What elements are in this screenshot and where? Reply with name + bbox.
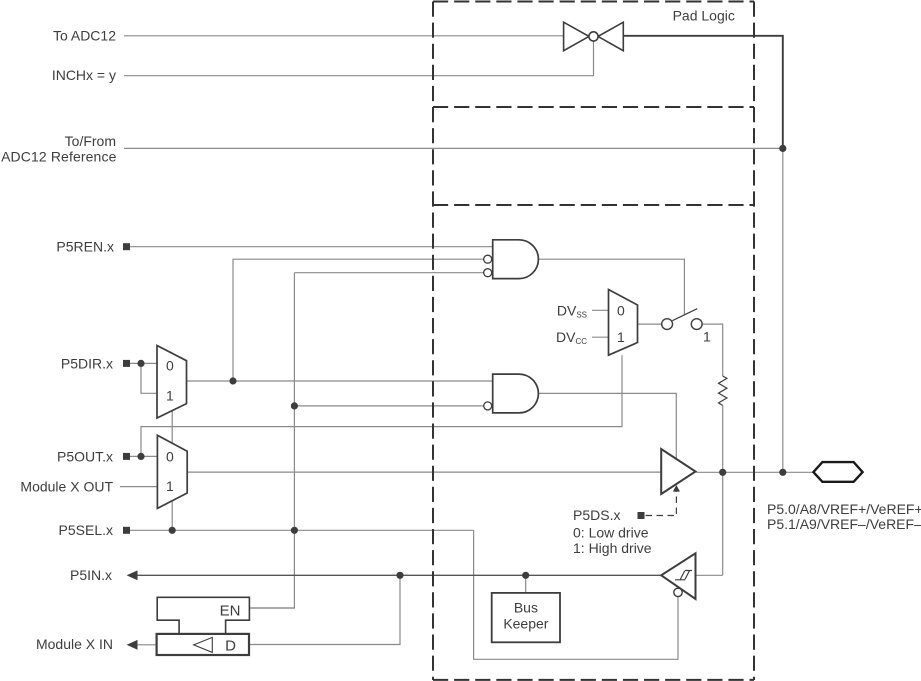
wire switch to resistor — [702, 324, 722, 376]
P5DS dashed control — [646, 492, 677, 516]
arrow P5IN.x — [127, 570, 138, 580]
terminal P5OUT.x — [123, 453, 130, 460]
junction dot P5DIR — [137, 360, 144, 367]
wire P5REN.x to AND1 — [130, 246, 493, 248]
junction dot pad net — [779, 469, 786, 476]
svg-text:Keeper: Keeper — [503, 616, 548, 632]
svg-text:P5DIR.x: P5DIR.x — [61, 355, 113, 371]
svg-text:P5.0/A8/VREF+/VeREF+: P5.0/A8/VREF+/VeREF+ — [767, 501, 921, 517]
wire DV mux output to switch — [638, 323, 662, 325]
wire EN to P5SEL — [249, 607, 294, 609]
driver buffer U3 — [661, 449, 695, 494]
svg-text:0: 0 — [617, 302, 625, 318]
schmitt trigger U4 (input buffer) — [661, 553, 695, 599]
dashed pad logic border bottom — [433, 679, 754, 681]
wire P5SEL net vertical — [294, 272, 483, 274]
wire P5DIR.x input — [130, 362, 157, 364]
wire AND2 output to driver enable — [538, 393, 676, 458]
svg-text:ADC12 Reference: ADC12 Reference — [1, 149, 117, 165]
junction dot mux1 out — [229, 377, 236, 384]
svg-text:Pad Logic: Pad Logic — [673, 8, 735, 24]
latch D block — [157, 634, 249, 655]
wire schmitt input — [697, 574, 723, 576]
switch S1 circle left — [662, 319, 673, 330]
svg-text:To ADC12: To ADC12 — [53, 27, 116, 43]
svg-text:P5DS.x: P5DS.x — [573, 507, 620, 523]
mux M2 (P5OUT) — [157, 435, 187, 508]
svg-text:EN: EN — [220, 603, 241, 620]
svg-text:D: D — [225, 637, 236, 654]
dashed pad logic border right — [753, 2, 755, 681]
dashed divider 1 — [433, 106, 754, 108]
wire Module X OUT — [120, 486, 157, 488]
wire P5DIR.x to mux1 input1 — [141, 363, 157, 393]
terminal P5REN.x — [123, 243, 130, 250]
terminal P5SEL.x — [123, 527, 130, 534]
svg-text:1: 1 — [166, 388, 174, 404]
wire INCHx control — [124, 41, 594, 75]
svg-text:1: High drive: 1: High drive — [573, 540, 652, 556]
pad hexagon P5.x — [813, 462, 862, 482]
svg-text:1: 1 — [166, 478, 174, 494]
resistor R pull — [719, 376, 727, 406]
switch S1 lever — [672, 309, 697, 321]
svg-text:P5REN.x: P5REN.x — [56, 239, 114, 255]
wire resistor to pad net — [722, 406, 724, 576]
wire mux1 output to AND2 top input — [187, 380, 493, 382]
svg-text:P5IN.x: P5IN.x — [70, 567, 112, 583]
svg-text:0: Low drive: 0: Low drive — [573, 525, 649, 541]
arrow P5DS into driver — [673, 485, 680, 492]
svg-text:Module X IN: Module X IN — [36, 636, 113, 652]
svg-text:0: 0 — [166, 358, 174, 374]
junction dot P5IN D — [396, 572, 403, 579]
switch S1 circle right — [691, 319, 702, 330]
wire mux select trunk under mux2 — [171, 411, 173, 530]
dashed pad logic border left — [432, 2, 434, 681]
mux M3 (pullup select DVss/DVcc) — [609, 290, 638, 356]
wire pad net vertical to ADC reference — [782, 148, 784, 472]
terminal P5DIR.x — [123, 360, 130, 367]
wire bus keeper stub — [525, 575, 527, 593]
wire To ADC12 — [124, 35, 564, 37]
wire driver output to pad — [696, 471, 813, 473]
svg-text:1: 1 — [617, 329, 625, 345]
junction dot P5SEL mux select — [169, 527, 176, 534]
AND gate U2 (direction logic) — [484, 374, 539, 413]
wire P5OUT.x input — [130, 455, 157, 457]
wire mux2 output to driver — [187, 471, 661, 473]
arrow Module X IN — [127, 640, 138, 650]
bus keeper block — [492, 593, 560, 642]
schmitt enable bubble — [674, 588, 682, 596]
svg-text:1: 1 — [703, 329, 711, 345]
svg-text:Bus: Bus — [514, 600, 538, 616]
wire P5SEL.x row — [130, 529, 474, 531]
junction dot P5OUT — [137, 453, 144, 460]
svg-text:Module X OUT: Module X OUT — [20, 479, 113, 495]
wire P5SEL to schmitt enable — [474, 530, 678, 659]
latch EN block — [157, 597, 249, 634]
wire Module X IN — [136, 644, 157, 646]
wire P5SEL vertical trunk — [249, 273, 294, 608]
wire AND2 bottom input — [294, 405, 483, 407]
dashed pad logic border top — [433, 1, 754, 3]
svg-text:DVSS: DVSS — [557, 302, 587, 319]
svg-text:DVCC: DVCC — [556, 329, 587, 346]
junction dot bus keeper — [522, 572, 529, 579]
wire To/From ADC12 Reference — [124, 147, 783, 149]
svg-text:To/From: To/From — [65, 133, 116, 149]
wire P5OUT to DV mux select — [141, 355, 622, 456]
svg-text:P5OUT.x: P5OUT.x — [57, 448, 113, 464]
wire transmission gate to pad net (dark) — [623, 36, 783, 149]
mux M1 (P5DIR) — [157, 346, 187, 419]
svg-text:P5.1/A9/VREF–/VeREF–: P5.1/A9/VREF–/VeREF– — [767, 516, 921, 532]
wire AND1 output to switch — [538, 259, 684, 314]
transmission gate analog switch — [564, 22, 624, 51]
terminal P5DS.x — [638, 512, 645, 519]
AND gate U1 (REN logic) — [484, 240, 539, 279]
hysteresis glyph — [675, 571, 692, 580]
wire node A vertical to AND1 mid input — [233, 259, 484, 381]
svg-text:P5SEL.x: P5SEL.x — [59, 522, 113, 538]
junction dot AND2 input — [291, 402, 298, 409]
wire D output to P5IN — [249, 575, 400, 644]
wire P5IN row — [136, 574, 662, 576]
svg-text:INCHx = y: INCHx = y — [52, 67, 116, 83]
junction dot P5SEL EN — [291, 527, 298, 534]
junction dot resistor pad — [719, 469, 726, 476]
wire DVSS stub — [592, 309, 609, 311]
junction dot ADC reference — [779, 145, 786, 152]
dashed divider 2 — [433, 204, 754, 206]
svg-text:0: 0 — [166, 449, 174, 465]
wire DVCC stub — [592, 336, 609, 338]
clock triangle in D block — [194, 637, 213, 652]
